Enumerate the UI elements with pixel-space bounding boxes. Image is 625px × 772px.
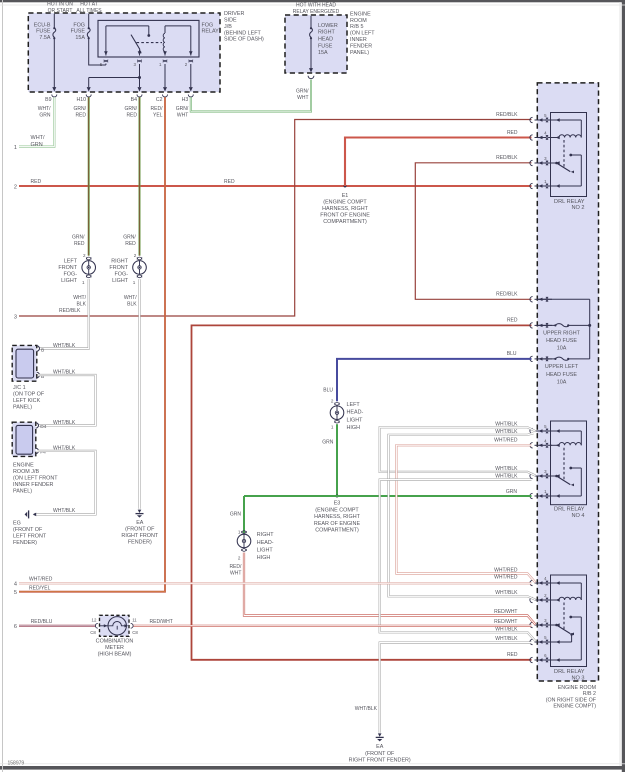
fuse FOG FUSE 15A <box>88 14 90 28</box>
svg-text:FOG-: FOG- <box>115 272 129 278</box>
svg-text:NO 3: NO 3 <box>571 676 584 682</box>
svg-text:HEAD: HEAD <box>318 37 333 43</box>
svg-text:(BEHIND LEFT: (BEHIND LEFT <box>224 30 262 36</box>
svg-text:RELAY ENERGIZED: RELAY ENERGIZED <box>293 9 340 15</box>
svg-text:WHT/BLK: WHT/BLK <box>495 590 518 596</box>
relay block: ENGINE ROOM R/B 2 (dashed box) <box>537 83 598 681</box>
svg-text:COMPARTMENT): COMPARTMENT) <box>323 219 367 225</box>
svg-text:HOT IN ON: HOT IN ON <box>47 2 73 8</box>
wire GRN/RED: H10 to left front fog light <box>88 97 90 255</box>
wire: relay pin 2 to H3 <box>190 64 192 87</box>
meter connector pin 11 / C8 <box>131 623 133 628</box>
wire 4 WHT/RED to DRL relay no 3 pin 4 <box>19 582 532 584</box>
svg-text:YEL: YEL <box>153 113 163 119</box>
svg-text:LEFT: LEFT <box>64 258 78 264</box>
svg-text:RED/BLU: RED/BLU <box>31 619 53 625</box>
svg-text:ROOM J/B: ROOM J/B <box>13 469 39 475</box>
svg-text:GRN: GRN <box>506 489 518 495</box>
wire: FOG FUSE to relay pin 5 <box>89 64 106 66</box>
svg-text:(ON LEFT: (ON LEFT <box>350 31 375 37</box>
J/C 1 connector B (bottom) <box>37 372 40 377</box>
svg-text:PANEL): PANEL) <box>13 405 32 411</box>
svg-text:R/B 5: R/B 5 <box>350 24 363 30</box>
svg-text:REAR OF ENGINE: REAR OF ENGINE <box>314 521 361 527</box>
connector F4 <box>36 448 39 453</box>
svg-text:RIGHT: RIGHT <box>111 258 128 264</box>
svg-text:NO 2: NO 2 <box>571 205 584 211</box>
wire WHT/BLK: right fog light to ground EA <box>138 279 140 509</box>
svg-text:RED/WHT: RED/WHT <box>150 619 173 625</box>
svg-text:ALL TIMES: ALL TIMES <box>76 8 102 14</box>
svg-text:LOWER: LOWER <box>318 23 338 29</box>
svg-text:1: 1 <box>82 280 85 285</box>
svg-text:FENDER): FENDER) <box>128 540 152 546</box>
svg-text:1: 1 <box>238 530 241 535</box>
svg-text:WHT/BLK: WHT/BLK <box>53 508 76 514</box>
svg-text:LIGHT: LIGHT <box>112 278 129 284</box>
svg-text:OR START: OR START <box>48 8 73 14</box>
svg-text:LIGHT: LIGHT <box>257 547 274 553</box>
svg-text:E3: E3 <box>334 501 341 507</box>
svg-text:FUSE: FUSE <box>71 29 86 35</box>
svg-text:UPPER LEFT: UPPER LEFT <box>545 364 579 370</box>
svg-text:15A: 15A <box>75 35 85 41</box>
svg-text:(FRONT OF: (FRONT OF <box>125 527 155 533</box>
ground EA (bottom) <box>378 733 382 736</box>
connector C2 <box>163 87 167 91</box>
svg-text:C8: C8 <box>132 630 138 635</box>
wire RED/WHT: combination meter to DRL relay no 3 pin 3 <box>133 625 532 627</box>
svg-text:GRN: GRN <box>322 440 334 446</box>
wire RED/BLK: DRL relay no 2 pin 3 to head fuses <box>415 163 531 299</box>
svg-text:2: 2 <box>331 398 334 403</box>
svg-text:7.5A: 7.5A <box>39 35 50 41</box>
svg-text:LEFT: LEFT <box>347 402 361 408</box>
R/B 2 fuse area connectors <box>530 297 533 302</box>
svg-text:BLU: BLU <box>507 351 517 357</box>
connector at R/B 5 bottom <box>309 68 313 72</box>
connector H10 <box>87 87 91 91</box>
svg-text:WHT: WHT <box>177 113 188 119</box>
wire 2 RED to DRL relay no 2 pin 1 <box>19 185 532 187</box>
svg-text:WHT/BLK: WHT/BLK <box>495 474 518 480</box>
svg-text:B4: B4 <box>131 97 137 103</box>
svg-text:METER: METER <box>105 645 124 651</box>
svg-text:(ENGINE COMPT: (ENGINE COMPT <box>323 199 367 205</box>
svg-text:3: 3 <box>14 314 17 320</box>
wire WHT/BLK: J/C 1 to ENGINE ROOM J/B D4 <box>38 375 96 425</box>
svg-text:RED: RED <box>507 130 518 136</box>
svg-text:GRN/: GRN/ <box>74 106 87 112</box>
lamp: LEFT FRONT FOG-LIGHT <box>82 261 96 275</box>
svg-text:FOG: FOG <box>73 22 85 28</box>
ground EG <box>33 513 36 517</box>
svg-text:WHT/BLK: WHT/BLK <box>53 420 76 426</box>
svg-text:RED: RED <box>507 652 518 658</box>
svg-text:COMPARTMENT): COMPARTMENT) <box>315 528 359 534</box>
svg-text:FRONT OF ENGINE: FRONT OF ENGINE <box>320 213 370 219</box>
svg-text:C8: C8 <box>90 630 96 635</box>
relay: DRL RELAY NO 4 <box>551 421 587 505</box>
svg-text:WHT: WHT <box>230 571 241 577</box>
splice E1 <box>344 185 347 188</box>
fog relay pin 5 leg <box>105 26 107 56</box>
wire RED: DRL relay no 2 pin 4 to splice E1 <box>345 138 532 187</box>
svg-text:HEAD-: HEAD- <box>347 410 364 416</box>
relay: FOG RELAY (box) <box>98 20 199 57</box>
svg-text:BLK: BLK <box>127 301 137 307</box>
wire 3 RED/BLK to DRL relay no 2 pin 5 <box>19 120 532 317</box>
svg-text:DRL RELAY: DRL RELAY <box>554 507 585 513</box>
svg-text:RED/BLK: RED/BLK <box>496 155 518 161</box>
lamp: LEFT HEAD-LIGHT HIGH <box>330 406 344 420</box>
svg-text:PANEL): PANEL) <box>350 50 369 56</box>
DRL relay no 3 pin connectors <box>530 580 533 585</box>
svg-text:RED/YEL: RED/YEL <box>29 585 51 591</box>
svg-text:NO 4: NO 4 <box>571 513 584 519</box>
svg-text:DRL RELAY: DRL RELAY <box>554 199 585 205</box>
svg-text:FRONT: FRONT <box>58 265 77 271</box>
wire WHT/BLK: DRL relay no 4 pin 5 loop to pin 3 <box>380 427 536 475</box>
svg-text:WHT/RED: WHT/RED <box>494 567 518 573</box>
svg-text:J/B: J/B <box>224 24 232 30</box>
svg-text:GRN: GRN <box>39 113 51 119</box>
svg-text:BLU: BLU <box>323 388 333 394</box>
svg-text:RIGHT FRONT: RIGHT FRONT <box>121 533 158 539</box>
svg-text:RED/BLK: RED/BLK <box>496 292 518 298</box>
wire RED/WHT: right headlight to DRL relay no 3 pin 3 <box>244 553 536 625</box>
svg-text:12: 12 <box>92 618 97 623</box>
svg-text:H10: H10 <box>76 97 86 103</box>
svg-text:BLK: BLK <box>77 301 87 307</box>
lamp: RIGHT FRONT FOG-LIGHT <box>133 261 147 275</box>
junction connector: J/C 1 (dashed box) <box>12 345 37 381</box>
svg-text:LEFT FRONT: LEFT FRONT <box>13 534 47 540</box>
lamp: RIGHT HEAD-LIGHT HIGH <box>237 534 251 548</box>
svg-text:UPPER RIGHT: UPPER RIGHT <box>543 331 581 337</box>
svg-text:WHT/RED: WHT/RED <box>494 437 518 443</box>
connector B9 <box>52 87 56 91</box>
svg-text:GRN/: GRN/ <box>123 234 136 240</box>
svg-text:RIGHT: RIGHT <box>257 532 274 538</box>
wire GRN: left headlight to splice E3 <box>336 424 338 496</box>
fuse UPPER RIGHT HEAD FUSE 10A <box>537 324 555 326</box>
svg-text:RED: RED <box>75 113 86 119</box>
svg-text:WHT/RED: WHT/RED <box>494 575 518 581</box>
svg-text:J/C 1: J/C 1 <box>13 385 26 391</box>
wire WHT/RED: DRL relay no 4 pin 4 to DRL relay no 3 pin 4 <box>396 445 535 582</box>
svg-text:FENDER): FENDER) <box>13 540 37 546</box>
svg-text:6: 6 <box>14 624 17 630</box>
svg-text:WHT/BLK: WHT/BLK <box>495 636 518 642</box>
svg-text:GRN/: GRN/ <box>176 106 189 112</box>
J/C 1 connector B (top) <box>37 346 40 351</box>
svg-text:COMBINATION: COMBINATION <box>96 638 134 644</box>
svg-text:R/B 2: R/B 2 <box>583 691 596 697</box>
svg-text:WHT/BLK: WHT/BLK <box>495 421 518 427</box>
svg-text:RED: RED <box>126 113 137 119</box>
svg-text:WHT/: WHT/ <box>31 135 46 141</box>
svg-text:2: 2 <box>83 253 86 258</box>
fog relay coil link (dashed) <box>137 42 163 44</box>
svg-text:HOT AT: HOT AT <box>80 2 98 8</box>
svg-text:11: 11 <box>132 618 137 623</box>
svg-text:B: B <box>41 347 44 353</box>
junction block: DRIVER SIDE J/B (dashed box) <box>28 13 220 92</box>
svg-text:GRN/: GRN/ <box>72 234 85 240</box>
wire WHT/BLK: DRL relay no 4 pin 3 to DRL relay no 3 pin 5 <box>380 480 536 642</box>
svg-text:HARNESS, RIGHT: HARNESS, RIGHT <box>322 206 369 212</box>
svg-text:(ON RIGHT SIDE OF: (ON RIGHT SIDE OF <box>546 697 597 703</box>
meter connector pin 12 / C8 <box>95 623 97 628</box>
wire GRN/WHT: H3 to LOWER RIGHT HEAD FUSE <box>191 80 311 112</box>
svg-text:C2: C2 <box>156 97 163 103</box>
svg-text:ENGINE: ENGINE <box>13 463 34 469</box>
svg-text:(HIGH BEAM): (HIGH BEAM) <box>98 652 132 658</box>
wire GRN/RED: B4 to right front fog light <box>139 97 141 255</box>
fog relay coil <box>164 26 166 33</box>
wire: relay pin 3 to B4 and H10 (junction) <box>139 64 141 87</box>
svg-text:RED/: RED/ <box>229 564 242 570</box>
svg-text:HEAD FUSE: HEAD FUSE <box>546 338 577 344</box>
DRL relay no 2 pin connectors <box>530 117 533 122</box>
svg-text:1: 1 <box>331 425 334 430</box>
connector D4 <box>36 423 39 428</box>
fuse UPPER LEFT HEAD FUSE 10A <box>537 358 555 360</box>
svg-text:WHT/BLK: WHT/BLK <box>495 466 518 472</box>
svg-text:DRIVER: DRIVER <box>224 11 244 17</box>
svg-text:EA: EA <box>376 744 384 750</box>
svg-text:HEAD-: HEAD- <box>257 540 274 546</box>
svg-text:RIGHT: RIGHT <box>318 30 335 36</box>
svg-text:WHT/: WHT/ <box>38 106 51 112</box>
relay: DRL RELAY NO 2 <box>551 113 587 197</box>
svg-text:EA: EA <box>136 520 144 526</box>
svg-text:GRN: GRN <box>31 142 43 148</box>
svg-text:H3: H3 <box>182 97 189 103</box>
wire WHT/BLK: F4 to ground EG <box>34 451 96 515</box>
svg-text:FUSE: FUSE <box>318 43 333 49</box>
svg-text:RED/BLK: RED/BLK <box>59 308 81 314</box>
svg-text:RED/BLK: RED/BLK <box>496 112 518 118</box>
svg-text:RED: RED <box>31 179 42 185</box>
fuse LOWER RIGHT HEAD FUSE 15A <box>310 16 312 28</box>
svg-text:WHT/BLK: WHT/BLK <box>495 429 518 435</box>
svg-text:RED/: RED/ <box>151 106 164 112</box>
svg-text:FUSE: FUSE <box>36 29 51 35</box>
svg-text:HARNESS, RIGHT: HARNESS, RIGHT <box>314 514 361 520</box>
svg-text:EG: EG <box>13 521 21 527</box>
indicator: COMBINATION METER (HIGH BEAM) <box>100 615 130 636</box>
fog relay pin 2 leg <box>165 25 191 27</box>
svg-text:(FRONT OF: (FRONT OF <box>365 751 395 757</box>
svg-text:4: 4 <box>14 582 17 588</box>
svg-text:RED: RED <box>74 241 85 247</box>
connector B4 <box>138 87 142 91</box>
svg-text:ECU-B: ECU-B <box>34 22 51 28</box>
svg-text:2: 2 <box>238 556 241 561</box>
svg-text:B9: B9 <box>45 97 51 103</box>
wire RED: UPPER RIGHT HEAD FUSE to DRL relay no 3 <box>192 325 532 659</box>
wire GRN: splice line down to right headlight <box>243 496 245 533</box>
svg-text:5: 5 <box>14 590 17 596</box>
svg-text:WHT/: WHT/ <box>73 295 86 301</box>
svg-text:WHT: WHT <box>297 95 308 101</box>
svg-text:RED: RED <box>224 179 235 185</box>
wire: head fuse common feed inside R/B 2 <box>537 298 589 300</box>
svg-text:WHT/: WHT/ <box>124 295 137 301</box>
fog relay pin 3 leg <box>139 50 141 56</box>
fuse ECU-B FUSE 7.5A <box>53 14 55 28</box>
svg-text:RIGHT FRONT FENDER): RIGHT FRONT FENDER) <box>349 758 411 764</box>
svg-text:WHT/RED: WHT/RED <box>29 576 53 582</box>
svg-text:SIDE OF DASH): SIDE OF DASH) <box>224 37 264 43</box>
wire 1 WHT/GRN from B9 <box>19 97 54 146</box>
svg-text:HIGH: HIGH <box>257 555 271 561</box>
svg-text:WHT/BLK: WHT/BLK <box>495 626 518 632</box>
svg-text:INNER FENDER: INNER FENDER <box>13 482 54 488</box>
svg-text:ENGINE: ENGINE <box>350 11 371 17</box>
svg-text:LIGHT: LIGHT <box>61 278 78 284</box>
wire WHT/BLK: DRL relay no 4 pin 5 to DRL relay no 3 pin 2 <box>389 433 536 600</box>
wire BLU: UPPER LEFT HEAD FUSE to left headlight <box>337 359 532 401</box>
wire RED/YEL: C2 to wire 5 <box>19 97 165 592</box>
relay block: ENGINE ROOM R/B 5 (dashed box) <box>285 15 347 73</box>
wire GRN: splice E3 to DRL relay no 4 pin 1 <box>244 495 532 497</box>
wire WHT/BLK: left fog light to J/C 1 <box>39 279 89 348</box>
svg-text:GRN: GRN <box>230 512 242 518</box>
connector H3 <box>189 87 193 91</box>
svg-text:FENDER: FENDER <box>350 44 372 50</box>
svg-text:ROOM: ROOM <box>350 18 367 24</box>
svg-text:LEFT KICK: LEFT KICK <box>13 398 41 404</box>
svg-text:1: 1 <box>14 145 17 151</box>
wire: relay pin 1 to C2 <box>164 64 166 87</box>
svg-text:2: 2 <box>14 184 17 190</box>
svg-text:GRN/: GRN/ <box>296 89 309 95</box>
fog relay pin connectors and numbers <box>104 60 108 62</box>
svg-text:ENGINE COMPT): ENGINE COMPT) <box>553 703 596 709</box>
fog relay switch <box>106 25 149 27</box>
svg-text:HEAD FUSE: HEAD FUSE <box>546 372 577 378</box>
svg-text:RELAY: RELAY <box>202 29 220 35</box>
svg-text:HIGH: HIGH <box>347 425 361 431</box>
svg-text:(ENGINE COMPT: (ENGINE COMPT <box>315 507 359 513</box>
svg-text:2: 2 <box>134 253 137 258</box>
svg-text:RED/WHT: RED/WHT <box>494 619 517 625</box>
svg-text:LIGHT: LIGHT <box>347 417 364 423</box>
svg-text:HOT WITH HEAD: HOT WITH HEAD <box>296 3 336 9</box>
svg-text:ENGINE ROOM: ENGINE ROOM <box>558 685 596 691</box>
svg-text:(FRONT OF: (FRONT OF <box>13 527 43 533</box>
svg-text:SIDE: SIDE <box>224 18 237 24</box>
svg-text:INNER: INNER <box>350 37 367 43</box>
wire 6 RED/BLU to combination meter <box>19 625 96 627</box>
svg-text:RED/WHT: RED/WHT <box>494 609 517 615</box>
svg-text:158979: 158979 <box>8 761 25 767</box>
svg-text:(ON LEFT FRONT: (ON LEFT FRONT <box>13 476 58 482</box>
svg-text:(ON TOP OF: (ON TOP OF <box>13 392 45 398</box>
splice E3 <box>336 495 339 498</box>
svg-text:D4: D4 <box>40 424 46 430</box>
svg-text:RED: RED <box>125 241 136 247</box>
svg-text:10A: 10A <box>557 346 567 352</box>
svg-text:FOG-: FOG- <box>64 272 78 278</box>
svg-text:DRL RELAY: DRL RELAY <box>554 669 585 675</box>
svg-text:RED: RED <box>507 318 518 324</box>
svg-text:GRN/: GRN/ <box>125 106 138 112</box>
svg-text:E1: E1 <box>342 193 349 199</box>
svg-text:1: 1 <box>133 280 136 285</box>
svg-text:WHT/BLK: WHT/BLK <box>53 343 76 349</box>
junction block: ENGINE ROOM J/B (dashed box) <box>12 422 36 456</box>
svg-text:FOG: FOG <box>202 22 214 28</box>
DRL relay no 4 pin connectors <box>530 428 533 433</box>
wire WHT/BLK: DRL relay no 3 pin 5 to ground EA <box>380 643 532 733</box>
svg-text:15A: 15A <box>318 50 328 56</box>
svg-text:WHT/BLK: WHT/BLK <box>355 706 378 712</box>
svg-text:PANEL): PANEL) <box>13 489 32 495</box>
relay: DRL RELAY NO 3 <box>551 575 587 667</box>
svg-text:10A: 10A <box>557 379 567 385</box>
ground EA (right front fender) <box>138 510 142 513</box>
svg-text:FRONT: FRONT <box>109 265 128 271</box>
